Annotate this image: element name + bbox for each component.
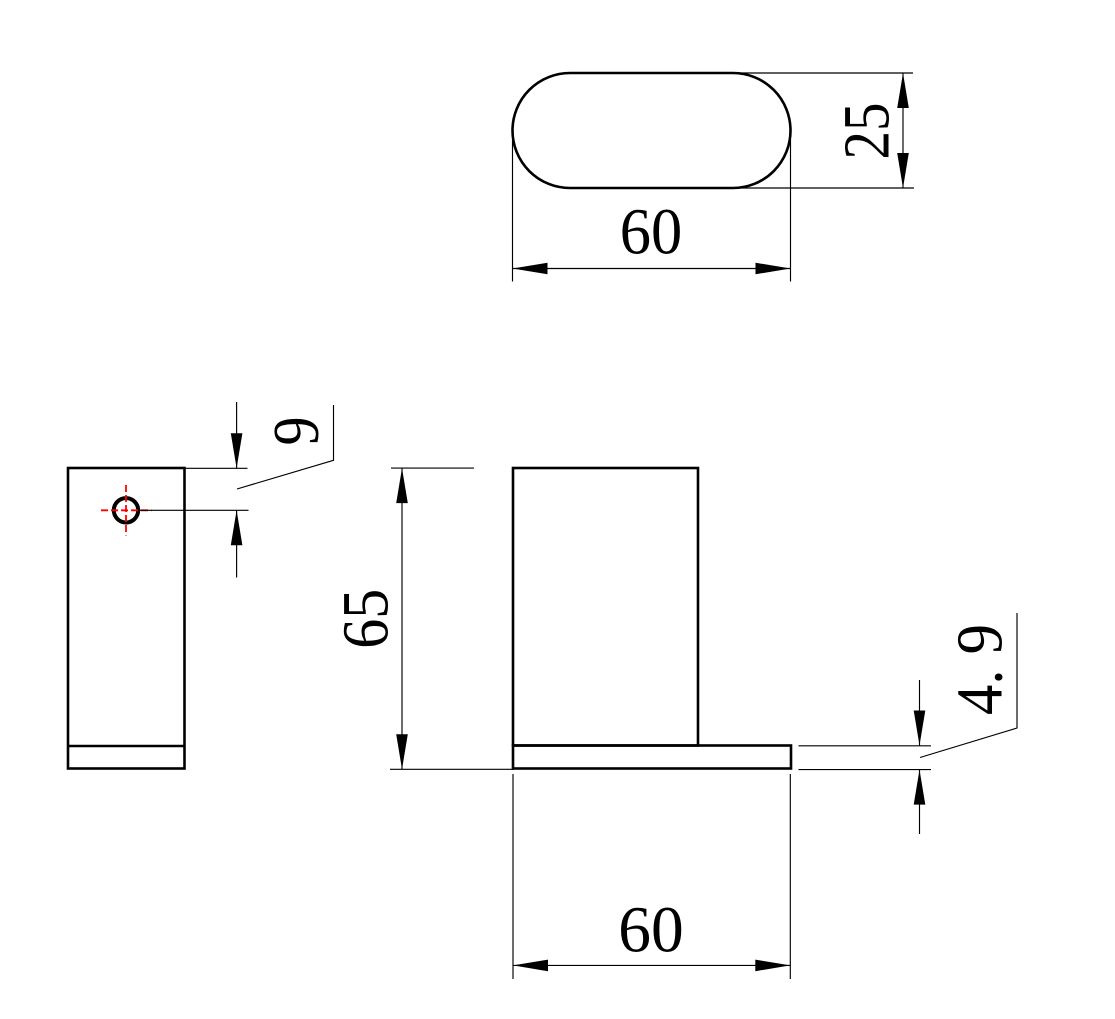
- dimension line 60 front view: [513, 960, 790, 972]
- extension line left of front 60 dim: [512, 774, 514, 979]
- dimension line 60 top view: [513, 263, 791, 275]
- extension line top of 25 dim: [734, 72, 913, 74]
- left side view plate rectangle: [68, 468, 185, 769]
- extension line bottom of 25 dim: [740, 187, 914, 189]
- extension line top of 9 dim: [185, 467, 248, 469]
- dimension line 65: [396, 468, 408, 769]
- extension line left of top 60 dim: [512, 140, 514, 282]
- leader line for 4.9: [920, 613, 1017, 758]
- hole circle: [114, 498, 138, 522]
- extension line top of 65 dim: [391, 467, 474, 469]
- extension line top of 4.9 dim: [799, 745, 932, 747]
- svg-text:4. 9: 4. 9: [944, 624, 1017, 715]
- svg-text:60: 60: [620, 196, 683, 269]
- dim text 60 top view: [620, 196, 683, 269]
- left view base plate top line: [68, 745, 185, 748]
- dimension line 9: [231, 402, 243, 578]
- dim text 9: [260, 417, 333, 446]
- extension line bottom of 65 dim: [390, 768, 514, 770]
- dimension line 4.9: [914, 680, 926, 834]
- svg-text:25: 25: [831, 103, 904, 160]
- dim text 60 front view: [618, 894, 684, 967]
- front view body rectangle: [513, 468, 698, 746]
- dim text 25: [831, 103, 904, 160]
- leader line for 9: [237, 405, 334, 489]
- extension line right of front 60 dim: [789, 774, 791, 979]
- extension line right of top 60 dim: [790, 140, 792, 282]
- red horizontal centerline: [101, 509, 152, 511]
- svg-text:9: 9: [260, 417, 333, 446]
- svg-text:65: 65: [329, 589, 402, 649]
- svg-text:60: 60: [618, 894, 684, 967]
- top view stadium outline: [513, 73, 791, 188]
- dim text 4.9: [944, 624, 1017, 715]
- red vertical centerline: [125, 485, 127, 536]
- dimension line 25: [897, 73, 909, 188]
- front view base plate rectangle: [513, 746, 791, 769]
- dim text 65: [329, 589, 402, 649]
- extension line bottom of 4.9 dim: [799, 769, 932, 771]
- extension line hole center of 9 dim: [138, 509, 249, 511]
